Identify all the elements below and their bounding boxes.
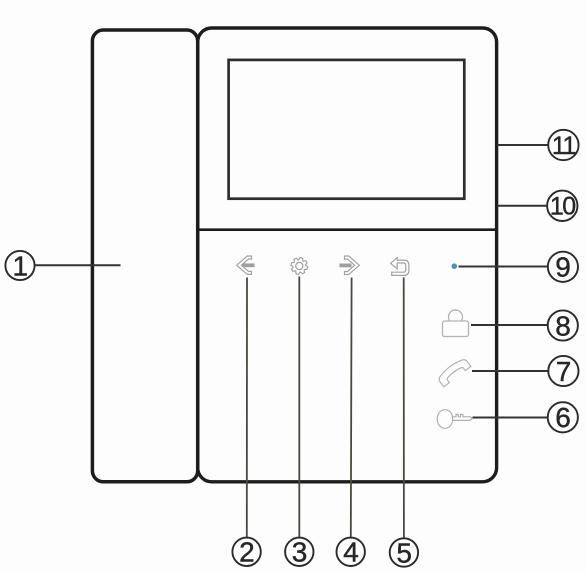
- svg-text:7: 7: [556, 356, 572, 387]
- svg-text:9: 9: [555, 252, 571, 283]
- svg-text:3: 3: [292, 537, 308, 568]
- svg-text:2: 2: [239, 537, 255, 568]
- svg-text:8: 8: [555, 310, 571, 341]
- svg-text:10: 10: [550, 193, 575, 221]
- svg-text:6: 6: [555, 402, 571, 433]
- svg-text:11: 11: [552, 132, 576, 160]
- svg-text:4: 4: [343, 537, 359, 568]
- svg-text:5: 5: [396, 537, 412, 568]
- svg-text:1: 1: [13, 250, 29, 281]
